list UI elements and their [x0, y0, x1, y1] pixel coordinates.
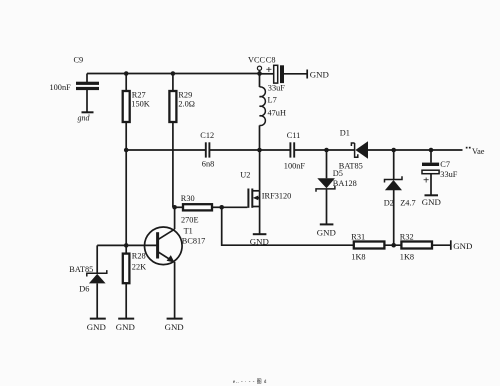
resistor R32: [400, 233, 451, 262]
svg-text:D1: D1: [340, 129, 350, 138]
svg-text:C12: C12: [200, 131, 214, 140]
svg-text:C7: C7: [440, 160, 450, 169]
svg-text:D5: D5: [333, 169, 343, 178]
svg-text:GND: GND: [116, 322, 135, 332]
svg-text:R29: R29: [178, 91, 192, 100]
svg-text:Z4.7: Z4.7: [400, 199, 415, 208]
svg-text:gnd: gnd: [78, 114, 91, 123]
ground below U2 source: [250, 234, 269, 246]
svg-text:GND: GND: [453, 241, 472, 251]
capacitor C11: [284, 131, 306, 171]
capacitor C9: [50, 56, 100, 112]
node junction top rail / R29: [171, 71, 176, 76]
ground below R28: [116, 319, 135, 332]
svg-text:2.0Ω: 2.0Ω: [178, 99, 195, 108]
svg-text:Vae: Vae: [472, 147, 485, 156]
svg-text:U2: U2: [240, 171, 250, 180]
node junction base / R28 / D6: [124, 243, 129, 248]
svg-text:33uF: 33uF: [440, 170, 457, 179]
svg-text:T1: T1: [184, 227, 193, 236]
resistor R31: [351, 233, 401, 262]
node junction mid rail / C7: [429, 148, 434, 153]
node junction mid rail / D5: [324, 148, 329, 153]
node junction mid rail / L7-drain: [257, 148, 262, 153]
svg-text:1K8: 1K8: [400, 253, 414, 262]
svg-text:GND: GND: [310, 70, 329, 80]
wire source down: [259, 207, 261, 234]
transistor U2 MOSFET IRF3120: [240, 171, 291, 208]
transistor T1 BC817: [145, 207, 206, 318]
svg-text:+: +: [266, 64, 272, 76]
svg-text:C8: C8: [266, 56, 276, 65]
svg-text:47uH: 47uH: [268, 109, 286, 118]
power VCC symbol: [248, 56, 266, 74]
wire top rail C9 to VCC node: [87, 73, 260, 75]
svg-text:L7: L7: [268, 96, 277, 105]
diode D5 BA128: [316, 150, 357, 224]
resistor R27: [123, 74, 150, 151]
svg-text:100nF: 100nF: [284, 162, 306, 171]
svg-text:BC817: BC817: [182, 237, 206, 246]
node junction R30 right / gate / feedback: [219, 205, 224, 210]
wire drain to mid rail: [259, 150, 261, 191]
svg-text:6n8: 6n8: [202, 160, 214, 169]
svg-text:GND: GND: [87, 322, 106, 332]
svg-text:GND: GND: [422, 197, 441, 207]
svg-text:GND: GND: [165, 322, 184, 332]
svg-text:D2: D2: [384, 199, 394, 208]
node junction top rail / R27: [124, 71, 129, 76]
ground below T1 emitter: [165, 319, 184, 332]
diode D1 BAT85 schottky: [339, 129, 368, 171]
svg-text:22K: 22K: [132, 262, 146, 271]
svg-text:R30: R30: [181, 194, 195, 203]
svg-text:33uF: 33uF: [268, 84, 285, 93]
svg-text:100nF: 100nF: [50, 83, 72, 92]
svg-text:R28: R28: [132, 252, 146, 261]
capacitor C8: [260, 56, 308, 93]
diode D2 zener Z4.7: [384, 150, 416, 245]
diode D6 BAT85 schottky: [69, 245, 107, 318]
wire R27 node down to base node: [125, 150, 127, 245]
svg-text:+: +: [423, 175, 429, 187]
port Vae: [466, 147, 485, 156]
resistor R28: [123, 245, 146, 318]
wire feedback from gate node down and right to R31: [222, 207, 354, 245]
svg-text:R31: R31: [351, 233, 365, 242]
svg-text:GND: GND: [317, 228, 336, 238]
svg-text:D6: D6: [79, 285, 89, 294]
wire gate: [222, 206, 248, 208]
node junction R31/R32/D2: [391, 243, 396, 248]
node junction mid rail / R27 column: [124, 148, 129, 153]
resistor R29: [169, 74, 195, 208]
node junction R30 left / T1 collector: [172, 205, 177, 210]
node junction mid rail / D2: [391, 148, 396, 153]
capacitor C12: [200, 131, 214, 169]
ground gnd below C9: [78, 112, 94, 122]
svg-text:VCC: VCC: [248, 56, 266, 65]
inductor L7: [260, 74, 286, 151]
resistor R30: [175, 194, 222, 225]
ground below D6: [87, 319, 106, 332]
ground below D5: [317, 224, 336, 237]
wire base rail: [97, 244, 157, 246]
svg-text:BA128: BA128: [333, 179, 357, 188]
svg-text:R32: R32: [400, 233, 414, 242]
svg-text:BAT85: BAT85: [69, 265, 93, 274]
ground below C7: [422, 195, 441, 207]
capacitor C7: [422, 150, 458, 195]
svg-text:1K8: 1K8: [351, 253, 365, 262]
svg-text:e.. - · - - 图 d: e.. - · - - 图 d: [233, 379, 267, 385]
svg-text:150K: 150K: [131, 99, 149, 108]
port GND right of R32: [451, 240, 473, 251]
svg-text:R27: R27: [132, 91, 146, 100]
svg-text:270E: 270E: [181, 216, 199, 225]
svg-text:IRF3120: IRF3120: [262, 192, 292, 201]
wire mid rail: [126, 149, 205, 151]
port GND right of C8: [307, 70, 329, 80]
svg-text:C9: C9: [74, 56, 84, 65]
node VCC junction: [257, 71, 262, 76]
svg-text:C11: C11: [287, 131, 301, 140]
